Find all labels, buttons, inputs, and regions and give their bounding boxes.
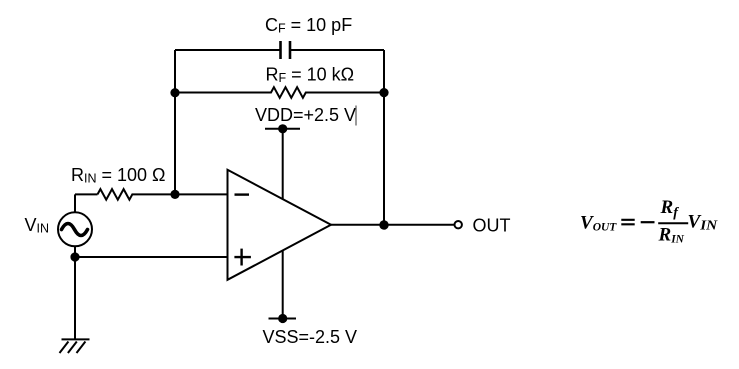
- wire: CF top feedback wire right segment: [290, 49, 384, 51]
- equation VOUT = -Rf/RIN VIN: [580, 197, 719, 246]
- junction dot: output node: [379, 220, 388, 229]
- resistor RF: [175, 87, 384, 98]
- wire: right feedback vertical: [383, 50, 385, 225]
- capacitor CF plates: [281, 41, 291, 59]
- ground symbol: [60, 339, 90, 353]
- eq minus sign: [641, 221, 655, 223]
- resistor RIN: [98, 189, 228, 200]
- text caret after VDD label: [355, 106, 357, 126]
- VSS power symbol bar: [269, 318, 297, 320]
- wire: left feedback vertical: [174, 50, 176, 194]
- source VIN circle: [58, 212, 92, 246]
- svg-text:OUT: OUT: [473, 216, 511, 236]
- junction dot: inverting input node: [170, 190, 179, 199]
- junction dot: VSS: [278, 314, 287, 323]
- wire: VDD to op-amp: [282, 129, 284, 200]
- svg-text:VSS=-2.5 V: VSS=-2.5 V: [263, 327, 358, 347]
- svg-text:VDD=+2.5 V: VDD=+2.5 V: [255, 105, 356, 125]
- terminal OUT open circle: [455, 221, 462, 228]
- junction dot: VIN/plus node: [70, 252, 79, 261]
- eq equals sign: [621, 220, 634, 225]
- wire: VIN bottom lead to ground: [74, 246, 76, 339]
- op-amp minus symbol: [235, 193, 250, 195]
- wire: VIN top lead: [74, 194, 76, 212]
- wire: non-inverting input row: [75, 256, 228, 258]
- wire: inverting input row: [75, 193, 98, 195]
- op-amp U1 triangle: [228, 170, 332, 280]
- VDD power symbol bar: [265, 128, 300, 130]
- wire: CF top feedback wire left segment: [175, 49, 281, 51]
- junction dot: RF right: [379, 88, 388, 97]
- wire: VSS from op-amp: [282, 248, 284, 319]
- op-amp plus symbol: [234, 249, 251, 266]
- junction dot: RF left: [170, 88, 179, 97]
- wire: output: [331, 224, 454, 226]
- junction dot: VDD: [278, 124, 287, 133]
- sine symbol inside VIN: [62, 224, 88, 236]
- eq fraction bar: [658, 222, 688, 224]
